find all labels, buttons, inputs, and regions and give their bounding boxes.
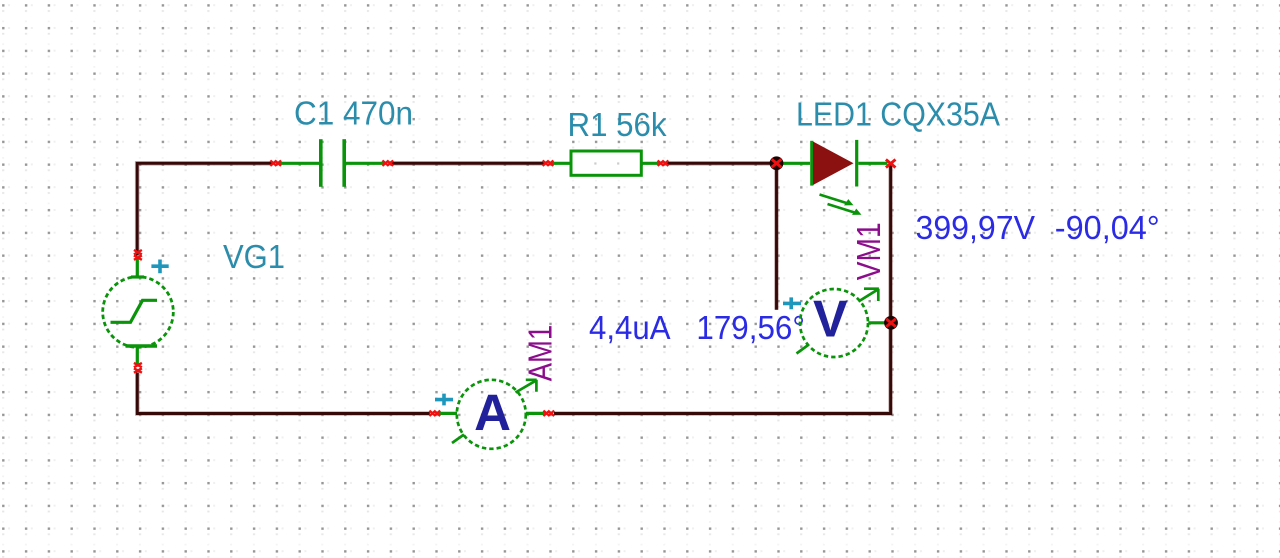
wire LED cathode corner down through node B to bottom-right corner then to ammeter right pin [554,165,891,414]
svg-text:C1 470n: C1 470n [294,95,413,132]
wire R1 right pin to node A [666,161,772,166]
resistor R1 [543,151,669,175]
svg-text:VM1: VM1 [850,222,887,280]
capacitor C1 [270,139,393,187]
svg-text:399,97V: 399,97V [916,209,1036,246]
svg-text:4,4uA: 4,4uA [589,309,671,346]
svg-text:V: V [813,290,848,348]
svg-text:A: A [474,384,511,441]
wire ammeter left pin to bottom-left corner up to VG1 bottom [137,373,430,414]
svg-text:AM1: AM1 [522,325,559,382]
wire C1 right pin to R1 left pin [390,161,546,166]
wire node A down to voltmeter plus pin [774,167,779,310]
svg-text:VG1: VG1 [223,238,285,275]
node A junction dot [770,156,784,170]
ammeter AM1 [429,380,554,449]
node B junction dot [884,316,898,330]
svg-text:-90,04°: -90,04° [1055,209,1160,246]
voltmeter VM1 [783,289,885,357]
svg-text:LED1 CQX35A: LED1 CQX35A [796,95,1000,132]
svg-text:R1 56k: R1 56k [568,106,667,143]
svg-text:179,56°: 179,56° [696,309,805,346]
wire from VG1 top via top-left corner to C1 left pin [137,163,272,255]
LED LED1 [780,140,896,215]
voltage generator VG1 [103,250,174,373]
